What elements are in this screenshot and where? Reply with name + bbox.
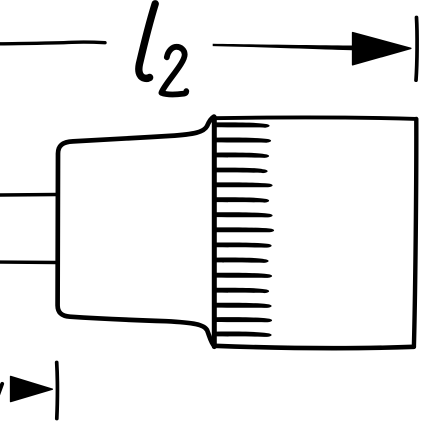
knurl tooth 1	[216, 122, 270, 127]
knurl tooth 14	[216, 317, 273, 322]
arrowhead, top dimension (points right)	[353, 33, 411, 65]
knurl tooth 4	[216, 168, 268, 174]
knurl tooth 10	[216, 258, 269, 263]
knurl tooth 6	[216, 197, 270, 202]
knurl tooth 9	[216, 242, 272, 247]
dimension line l2, right segment	[213, 44, 356, 51]
knurl tooth 3	[216, 153, 270, 158]
body: left edge / knurl base line	[212, 117, 217, 346]
knurl tooth 7	[216, 212, 273, 217]
arrowhead, bottom dimension (points right)	[11, 377, 53, 402]
body: right edge of knurled sleeve	[414, 119, 416, 347]
shaft line, upper	[0, 193, 57, 197]
shaft line, lower	[0, 260, 57, 264]
extension tick, bottom left	[55, 363, 59, 419]
dimension label l2: subscript 2	[161, 47, 186, 95]
knurl tooth 12	[216, 288, 270, 293]
knurl tooth 2	[216, 138, 272, 143]
knurl tooth 13	[216, 303, 272, 308]
extension tick, top right	[416, 18, 417, 81]
knurl tooth 15	[216, 332, 272, 337]
body: bottom edge of knurled sleeve	[215, 346, 414, 348]
body: top edge of knurled sleeve	[214, 117, 417, 118]
tapered collar outline	[58, 117, 214, 346]
knurl tooth 11	[216, 273, 273, 278]
dimension tail stub, bottom left	[0, 384, 2, 398]
knurl tooth 5	[216, 182, 273, 187]
dimension label l2: letter l	[139, 4, 155, 79]
knurl tooth 8	[216, 227, 275, 232]
dimension line l2, left segment	[0, 42, 105, 44]
